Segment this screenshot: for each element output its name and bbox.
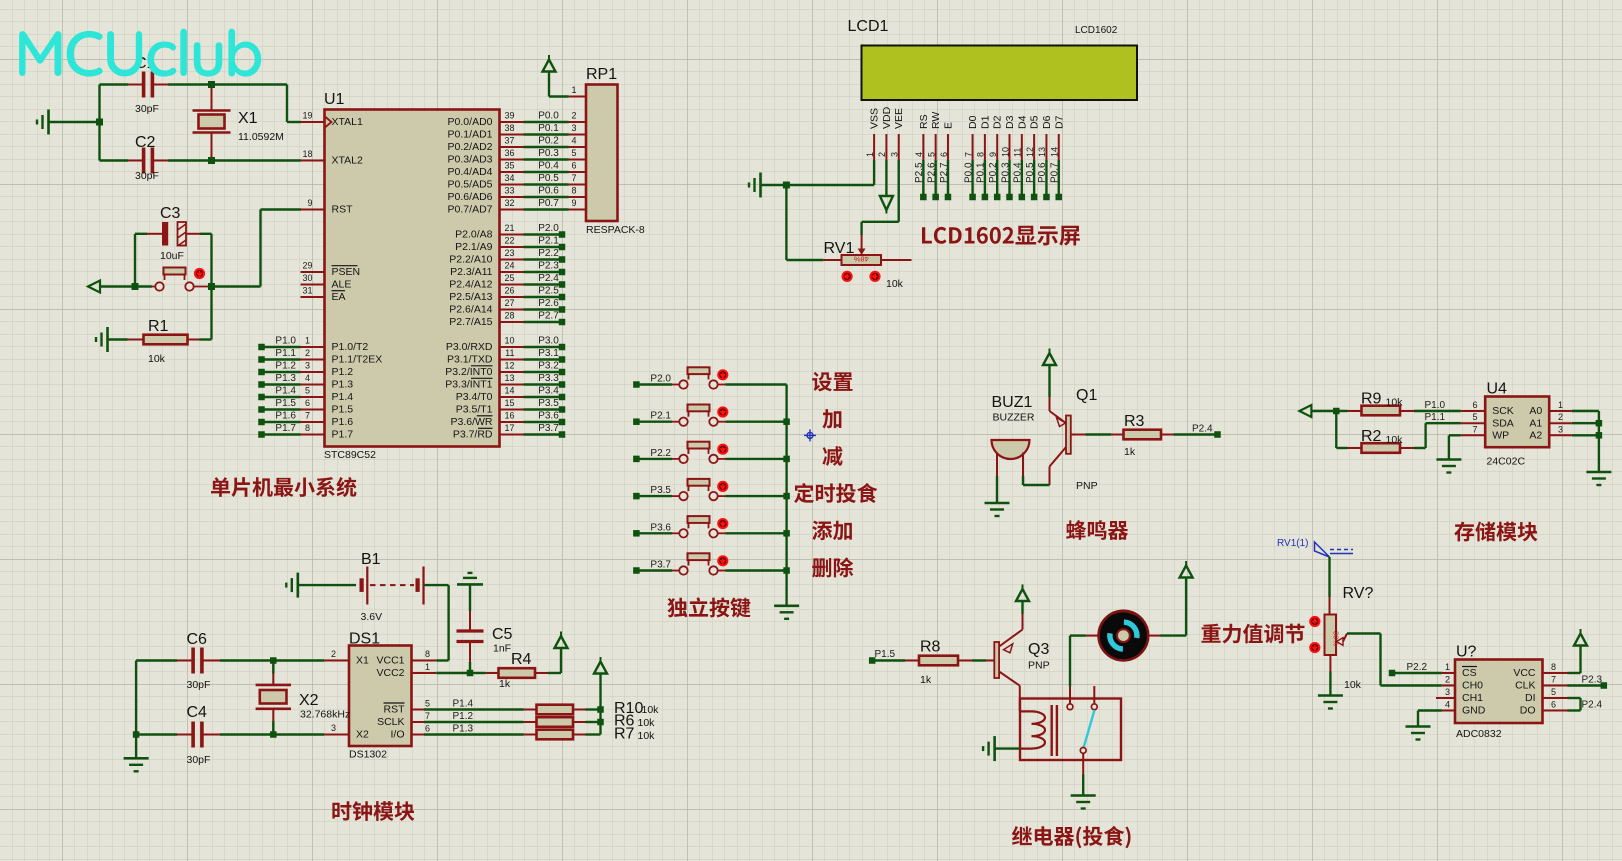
svg-text:PNP: PNP	[1076, 480, 1098, 492]
wire C1 top	[100, 83, 288, 85]
svg-text:ALE: ALE	[332, 279, 352, 291]
svg-text:P1.7: P1.7	[275, 423, 296, 434]
logo MCUclub	[19, 29, 261, 77]
pin PSEN (29)	[301, 261, 361, 279]
terminal arrow (reset)	[88, 281, 135, 293]
terminal P2.3 (CLK)	[1568, 675, 1608, 689]
ground (clock)	[124, 758, 149, 771]
svg-text:P3.7/RD: P3.7/RD	[453, 429, 493, 441]
svg-text:P0.5/AD5: P0.5/AD5	[448, 179, 493, 191]
svg-text:P2.0: P2.0	[538, 223, 559, 234]
svg-text:P2.5/A13: P2.5/A13	[449, 291, 492, 303]
wire battery to VCC1	[424, 585, 449, 660]
svg-text:P0.1: P0.1	[538, 123, 559, 134]
capacitor C4	[177, 704, 220, 766]
node R9/R2 junction	[1333, 408, 1340, 415]
ground up (C5)	[457, 573, 483, 611]
svg-text:P3.5/T1: P3.5/T1	[456, 404, 493, 416]
svg-text:P0.0: P0.0	[538, 111, 559, 122]
memory U4 24C02C	[1485, 381, 1549, 468]
svg-text:17: 17	[504, 423, 514, 433]
svg-text:36: 36	[504, 148, 514, 158]
svg-text:Q1: Q1	[1076, 387, 1097, 404]
svg-text:X2: X2	[356, 729, 369, 741]
svg-text:D1: D1	[979, 115, 991, 129]
svg-text:P1.7: P1.7	[332, 429, 354, 441]
svg-text:RST: RST	[384, 704, 406, 716]
node X1 bottom	[208, 157, 215, 164]
svg-text:P1.1/T2EX: P1.1/T2EX	[332, 354, 383, 366]
LCD pin RW (5)	[926, 112, 942, 201]
svg-text:R4: R4	[511, 651, 532, 668]
node VSS/RV1 junction	[783, 182, 790, 189]
node X1 top	[208, 81, 215, 88]
pin SDA (5)	[1425, 412, 1514, 429]
pin DO (6)	[1520, 700, 1568, 717]
label LCD1602显示屏	[922, 226, 1080, 246]
svg-text:R9: R9	[1361, 391, 1382, 408]
resistor R1	[128, 318, 200, 365]
pin P0.5/AD5 (34) / RP1 pin 7	[448, 173, 586, 191]
ground (relay coil)	[983, 736, 1020, 761]
ground (U4 WP)	[1436, 460, 1461, 473]
pin P3.1/TXD (11)	[447, 348, 565, 366]
pin P1.1/T2EX (2)	[258, 348, 382, 366]
svg-text:P3.6: P3.6	[538, 411, 559, 422]
svg-text:P2.4: P2.4	[538, 273, 559, 284]
pin P1.7 (8)	[258, 423, 353, 441]
net flag RV1(1)	[1277, 538, 1353, 557]
svg-text:26: 26	[504, 286, 514, 296]
pin P2.5/A13 (26)	[449, 286, 565, 304]
svg-text:BUZ1: BUZ1	[992, 394, 1033, 411]
pin P0.6/AD6 (33) / RP1 pin 8	[448, 186, 586, 204]
svg-text:D2: D2	[992, 115, 1004, 129]
svg-text:P2.6: P2.6	[538, 298, 559, 309]
svg-text:GND: GND	[1462, 705, 1486, 717]
svg-text:E: E	[942, 122, 954, 129]
svg-text:P2.0: P2.0	[650, 374, 671, 385]
svg-text:P2.6/A14: P2.6/A14	[449, 304, 492, 316]
svg-text:8: 8	[572, 186, 577, 196]
svg-text:P0.5: P0.5	[538, 173, 559, 184]
svg-text:P0.4: P0.4	[1013, 162, 1024, 183]
svg-text:P0.0: P0.0	[963, 162, 974, 183]
svg-text:1: 1	[1445, 662, 1450, 672]
svg-text:7: 7	[425, 711, 430, 721]
push button reset	[152, 268, 212, 291]
pin P3.5/T1 (15)	[456, 398, 566, 416]
pin A1 (2)	[1529, 412, 1599, 429]
pin P1.6 (7)	[258, 411, 353, 429]
transistor Q1 PNP	[1050, 387, 1098, 492]
svg-text:10k: 10k	[886, 278, 904, 290]
svg-text:6: 6	[305, 398, 310, 408]
svg-text:25: 25	[504, 273, 514, 283]
push button P3.7	[633, 553, 786, 574]
svg-text:1: 1	[305, 336, 310, 346]
svg-text:P2.4: P2.4	[1582, 700, 1603, 711]
svg-text:1: 1	[572, 85, 577, 95]
svg-text:P1.1: P1.1	[1425, 412, 1446, 423]
wire C4 row	[136, 733, 324, 735]
svg-text:D0: D0	[967, 115, 979, 129]
svg-text:U?: U?	[1456, 644, 1477, 661]
label 时钟模块	[332, 801, 414, 821]
pin EA (31)	[301, 286, 346, 304]
pin CS (1)	[1442, 662, 1477, 679]
wire RST row	[424, 699, 524, 710]
pin P2.2/A10 (23)	[449, 248, 565, 266]
push button P3.6	[633, 516, 786, 537]
node R6 junction	[597, 719, 604, 726]
svg-text:XTAL1: XTAL1	[332, 116, 363, 128]
svg-text:4: 4	[572, 136, 577, 146]
svg-text:P2.2: P2.2	[650, 448, 671, 459]
svg-text:P2.4/A12: P2.4/A12	[449, 279, 492, 291]
svg-text:1k: 1k	[1124, 446, 1136, 458]
ground (U4 A pins)	[1586, 472, 1611, 485]
label 删除	[812, 557, 853, 577]
svg-text:P2.4: P2.4	[1192, 424, 1213, 435]
pin CH1 stub	[1436, 697, 1442, 699]
svg-text:48%: 48%	[853, 255, 868, 264]
svg-text:P3.0: P3.0	[538, 336, 559, 347]
svg-text:27: 27	[504, 298, 514, 308]
svg-text:A0: A0	[1529, 405, 1542, 417]
node X2 top	[270, 657, 277, 664]
node C4 gnd junction	[133, 731, 140, 738]
svg-text:32.768kHz: 32.768kHz	[300, 709, 350, 721]
pin CH1 (3)	[1442, 687, 1483, 704]
terminal P2.2	[1389, 662, 1442, 676]
crystal X2	[256, 661, 351, 735]
svg-text:P1.0: P1.0	[275, 336, 296, 347]
pin VCC2 (1)	[376, 662, 468, 679]
svg-text:VDD: VDD	[881, 106, 893, 129]
wire WP to gnd	[1449, 435, 1461, 459]
adjust icons (RV1)	[843, 272, 880, 281]
svg-text:16: 16	[504, 411, 514, 421]
pin P0.1/AD1 (38) / RP1 pin 3	[448, 123, 586, 141]
svg-text:X1: X1	[238, 110, 258, 127]
svg-text:P3.2/INT0: P3.2/INT0	[445, 366, 492, 378]
pin P3.3/INT1 (13)	[445, 373, 565, 391]
svg-text:P3.4/T0: P3.4/T0	[456, 391, 493, 403]
svg-text:RST: RST	[332, 204, 354, 216]
svg-text:U1: U1	[324, 91, 345, 108]
relay coil + contacts	[1020, 686, 1057, 756]
power down terminal (VDD)	[880, 160, 893, 214]
wire relay to motor	[1070, 636, 1086, 687]
node VCC2/C5/R4	[467, 670, 474, 677]
svg-text:3: 3	[305, 361, 310, 371]
svg-text:P2.1/A9: P2.1/A9	[455, 241, 493, 253]
pin P0.3/AD3 (36) / RP1 pin 5	[448, 148, 586, 166]
ground (R1)	[96, 327, 128, 352]
svg-text:X1: X1	[356, 655, 369, 667]
svg-text:P1.2: P1.2	[453, 711, 474, 722]
svg-text:RV1: RV1	[824, 240, 855, 257]
LCD pin D5 (12)	[1025, 115, 1041, 200]
svg-text:30: 30	[302, 273, 312, 283]
svg-text:11.0592M: 11.0592M	[238, 131, 284, 143]
svg-text:P2.7/A15: P2.7/A15	[449, 316, 492, 328]
svg-text:30%: 30%	[1332, 631, 1341, 646]
node A2 junction	[1596, 432, 1603, 439]
transistor Q3 PNP	[986, 614, 1050, 686]
svg-text:10k: 10k	[638, 730, 656, 742]
LCD1602 screen	[862, 46, 1138, 101]
svg-text:9: 9	[307, 198, 312, 208]
push button P3.5	[633, 479, 786, 500]
svg-text:7: 7	[1472, 424, 1477, 434]
svg-text:LCD1602: LCD1602	[1075, 25, 1118, 36]
svg-text:28: 28	[504, 311, 514, 321]
node A1 junction	[1596, 420, 1603, 427]
wire RV? top	[1328, 557, 1330, 615]
adjust icons (RV?)	[1310, 617, 1319, 652]
capacitor C6	[177, 631, 220, 691]
resistor R4	[470, 649, 561, 691]
svg-text:14: 14	[504, 386, 514, 396]
power symbol (RP1)	[543, 55, 587, 97]
svg-text:DI: DI	[1525, 692, 1536, 704]
ground (buttons)	[774, 606, 799, 619]
ground (buzzer)	[985, 503, 1010, 516]
resistor pack RP1 RESPACK-8	[586, 66, 645, 236]
pin P3.0/RXD (10)	[446, 336, 565, 354]
svg-text:P1.0: P1.0	[1425, 400, 1446, 411]
pin P2.0/A8 (21)	[455, 223, 565, 241]
LCD pin D1 (8)	[976, 115, 992, 200]
power symbol (Q3 emitter)	[1016, 585, 1029, 615]
svg-text:LCD1: LCD1	[848, 18, 889, 35]
motor	[1086, 611, 1160, 661]
svg-text:RV?: RV?	[1343, 585, 1374, 602]
pin P0.4/AD4 (35) / RP1 pin 6	[448, 161, 586, 179]
svg-text:P2.5: P2.5	[538, 286, 559, 297]
svg-text:3: 3	[572, 123, 577, 133]
ground (crystal)	[37, 110, 100, 135]
label 继电器(投食)	[1012, 826, 1131, 848]
pin P3.7/RD (17)	[453, 423, 565, 441]
power symbol (pullups)	[594, 657, 607, 674]
wire reset to RST pin	[212, 210, 302, 287]
cursor crosshair	[804, 429, 816, 441]
pin P1.4 (5)	[258, 386, 353, 404]
potentiometer RV1 10k	[823, 235, 911, 290]
op-amp n/a : microcontroller U1 STC89C52	[324, 91, 500, 461]
svg-text:P0.5: P0.5	[1025, 162, 1036, 183]
resistor R7	[524, 726, 656, 743]
svg-text:P1.4: P1.4	[332, 391, 354, 403]
svg-text:P2.0/A8: P2.0/A8	[455, 229, 493, 241]
svg-text:15: 15	[504, 398, 514, 408]
node button bus junction	[783, 418, 790, 425]
label 加	[822, 409, 841, 428]
svg-text:37: 37	[504, 136, 514, 146]
svg-text:P2.1: P2.1	[650, 411, 671, 422]
LCD pin E (6)	[939, 122, 955, 200]
relay box	[1020, 699, 1121, 761]
pin XTAL1 (19)	[301, 111, 363, 129]
svg-text:P2.5: P2.5	[914, 162, 925, 183]
LCD pin D3 (10)	[1000, 115, 1016, 200]
svg-text:P1.4: P1.4	[453, 699, 474, 710]
wire DI-DO tie (P2.4)	[1568, 698, 1603, 711]
svg-text:PNP: PNP	[1028, 660, 1050, 672]
svg-text:P0.6: P0.6	[538, 186, 559, 197]
ground (battery)	[286, 573, 356, 598]
svg-text:P3.4: P3.4	[538, 386, 559, 397]
svg-text:P2.2/A10: P2.2/A10	[449, 254, 492, 266]
power symbol (Q1 emitter)	[1043, 349, 1056, 398]
node R10 junction	[597, 706, 604, 713]
pin CLK (7)	[1515, 675, 1567, 692]
svg-text:10k: 10k	[638, 717, 656, 729]
svg-text:RS: RS	[918, 114, 930, 129]
svg-text:2: 2	[1558, 412, 1563, 422]
svg-text:A2: A2	[1529, 430, 1542, 442]
ground (relay common)	[1071, 796, 1096, 809]
wire clock left vertical	[135, 661, 137, 735]
power symbol (ADC VCC)	[1574, 629, 1587, 646]
svg-text:P3.6/WR: P3.6/WR	[450, 416, 492, 428]
pin ALE (30)	[301, 273, 352, 291]
pin RST (5)	[384, 699, 431, 716]
resistor R3	[1086, 413, 1221, 458]
wire right vertical to XTAL1	[287, 85, 301, 123]
pin P2.3/A11 (24)	[450, 261, 565, 279]
svg-text:SDA: SDA	[1492, 417, 1514, 429]
svg-text:C4: C4	[187, 704, 208, 721]
svg-text:6: 6	[1551, 700, 1556, 710]
capacitor C5 1nF	[457, 611, 513, 673]
wire C3 right leg	[200, 234, 212, 287]
svg-text:7: 7	[1551, 675, 1556, 685]
svg-text:P1.2: P1.2	[332, 366, 354, 378]
svg-text:C6: C6	[187, 631, 208, 648]
svg-text:P1.2: P1.2	[275, 361, 296, 372]
pin WP (7)	[1461, 424, 1509, 441]
resistor R2	[1336, 411, 1461, 453]
svg-text:P0.6/AD6: P0.6/AD6	[448, 191, 493, 203]
wire C3 left leg	[135, 234, 152, 287]
svg-text:P1.4: P1.4	[275, 386, 296, 397]
svg-text:24: 24	[504, 261, 514, 271]
pin SCK (6)	[1425, 400, 1514, 417]
label 定时投食	[794, 483, 877, 503]
crystal X1	[193, 85, 284, 161]
svg-text:1k: 1k	[920, 674, 932, 686]
svg-text:29: 29	[302, 261, 312, 271]
label 存储模块	[1454, 522, 1537, 542]
relay contact left	[1067, 687, 1073, 710]
svg-text:C5: C5	[492, 626, 513, 643]
svg-text:P2.2: P2.2	[1407, 662, 1428, 673]
svg-text:6: 6	[1472, 400, 1477, 410]
LCD pin D6 (13)	[1037, 115, 1053, 200]
svg-text:C2: C2	[135, 134, 156, 151]
svg-text:4: 4	[305, 373, 310, 383]
svg-text:10k: 10k	[1386, 397, 1404, 409]
svg-text:P2.3: P2.3	[538, 261, 559, 272]
svg-text:ADC0832: ADC0832	[1456, 728, 1502, 740]
svg-text:P1.6: P1.6	[332, 416, 354, 428]
svg-text:P1.1: P1.1	[275, 348, 296, 359]
svg-text:R8: R8	[920, 639, 941, 656]
svg-text:VCC2: VCC2	[376, 667, 404, 679]
svg-text:7: 7	[572, 173, 577, 183]
pin A2 (3)	[1529, 424, 1599, 441]
svg-text:B1: B1	[361, 551, 381, 568]
label 单片机最小系统	[211, 477, 356, 497]
LCD pin VSS (1)	[865, 108, 881, 160]
svg-text:2: 2	[331, 649, 336, 659]
svg-text:P3.1: P3.1	[538, 348, 559, 359]
svg-text:5: 5	[1472, 412, 1477, 422]
svg-text:P0.7: P0.7	[1050, 162, 1061, 183]
ground (RV?)	[1318, 696, 1343, 709]
svg-text:EA: EA	[332, 291, 346, 303]
node button bus junction	[783, 567, 790, 574]
svg-text:RESPACK-8: RESPACK-8	[586, 224, 645, 236]
svg-text:P2.7: P2.7	[538, 311, 559, 322]
pin P0.0/AD0 (39) / RP1 pin 2	[448, 111, 586, 129]
svg-text:11: 11	[505, 348, 514, 358]
svg-text:1k: 1k	[499, 678, 511, 690]
svg-text:R3: R3	[1124, 413, 1145, 430]
svg-text:VSS: VSS	[869, 108, 881, 129]
svg-text:30pF: 30pF	[135, 103, 159, 115]
pin P0.2/AD2 (37) / RP1 pin 4	[448, 136, 586, 154]
svg-text:DO: DO	[1520, 705, 1536, 717]
wire reset to R1	[200, 287, 212, 340]
pin P1.3 (4)	[258, 373, 353, 391]
svg-text:D3: D3	[1004, 115, 1016, 129]
svg-text:U4: U4	[1487, 381, 1508, 398]
svg-text:P2.2: P2.2	[538, 248, 559, 259]
svg-text:21: 21	[504, 223, 514, 233]
relay contact right stub	[1091, 686, 1097, 710]
svg-text:9: 9	[572, 198, 577, 208]
LCD pin VEE (3)	[890, 108, 906, 160]
relay switch arm	[1080, 710, 1094, 753]
push button P2.2	[633, 442, 786, 463]
svg-text:R7: R7	[614, 726, 635, 743]
svg-text:P0.2: P0.2	[988, 162, 999, 183]
svg-text:D5: D5	[1029, 115, 1041, 129]
LCD pin RS (4)	[914, 114, 930, 200]
wire I/O row	[424, 724, 524, 735]
svg-text:2: 2	[305, 348, 310, 358]
svg-text:CH1: CH1	[1462, 692, 1483, 704]
wire VSS to ground	[761, 160, 875, 185]
svg-text:P2.1: P2.1	[538, 236, 559, 247]
svg-text:38: 38	[504, 123, 514, 133]
wire GND pin to gnd	[1418, 711, 1442, 727]
wire C6 row	[136, 659, 324, 661]
wire buzzer left to gnd	[996, 476, 998, 503]
pin SCLK (7)	[377, 711, 430, 728]
svg-text:6: 6	[425, 724, 430, 734]
svg-text:5: 5	[305, 386, 310, 396]
svg-text:30pF: 30pF	[135, 170, 159, 182]
svg-text:STC89C52: STC89C52	[324, 449, 376, 461]
svg-text:P1.3: P1.3	[453, 724, 474, 735]
svg-text:R2: R2	[1361, 428, 1382, 445]
